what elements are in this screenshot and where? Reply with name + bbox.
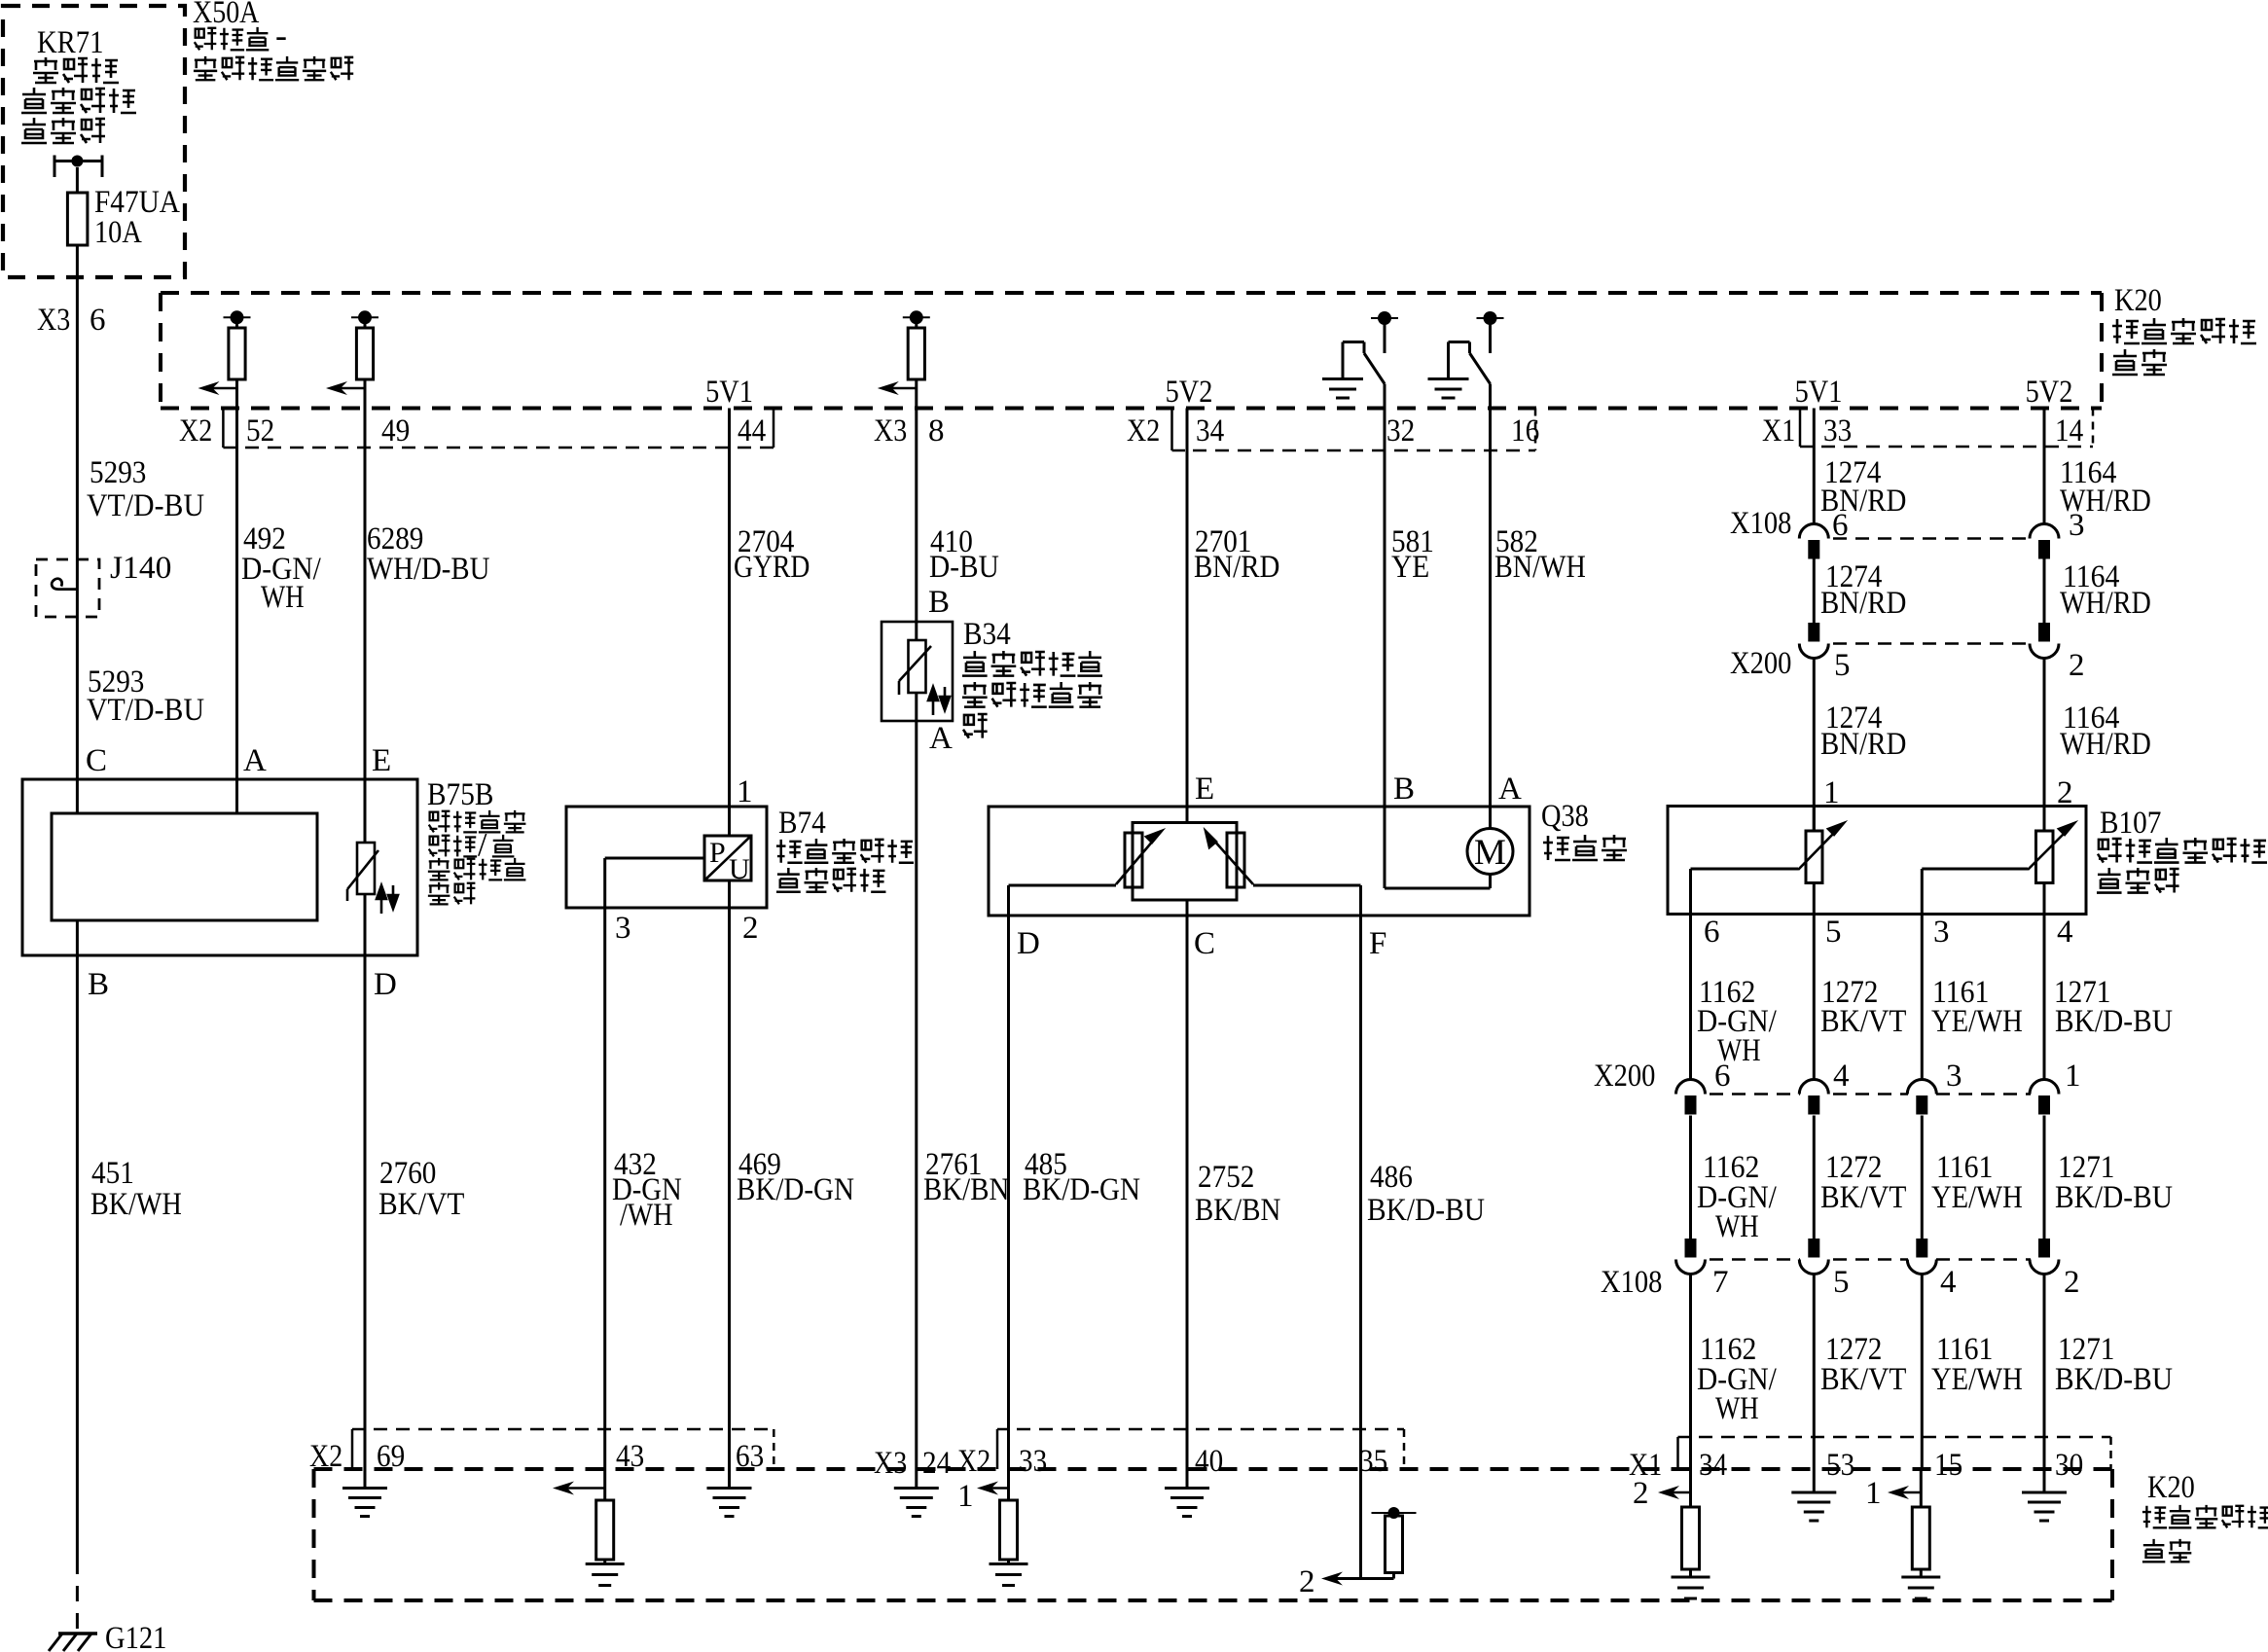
svg-text:2: 2 xyxy=(2069,648,2085,683)
svg-text:3: 3 xyxy=(1946,1059,1962,1094)
svg-text:X3: X3 xyxy=(37,303,70,338)
svg-text:K20: K20 xyxy=(2114,283,2162,318)
svg-text:/: / xyxy=(478,827,487,863)
svg-text:J140: J140 xyxy=(110,551,171,586)
svg-text:A: A xyxy=(243,743,267,778)
svg-text:63: 63 xyxy=(736,1439,764,1474)
svg-text:X200: X200 xyxy=(1730,646,1791,681)
svg-text:BK/D-BU: BK/D-BU xyxy=(1367,1193,1485,1228)
svg-text:24: 24 xyxy=(922,1446,951,1481)
svg-text:2: 2 xyxy=(1299,1564,1315,1599)
svg-text:X2: X2 xyxy=(179,413,212,449)
svg-text:52: 52 xyxy=(246,413,274,449)
svg-text:B75B: B75B xyxy=(427,777,493,812)
svg-text:53: 53 xyxy=(1826,1448,1854,1483)
svg-text:BK/D-GN: BK/D-GN xyxy=(737,1172,854,1207)
svg-text:44: 44 xyxy=(738,413,766,449)
svg-text:GYRD: GYRD xyxy=(734,550,810,585)
svg-text:YE/WH: YE/WH xyxy=(1931,1180,2023,1215)
svg-text:C: C xyxy=(86,743,107,778)
svg-text:WH/RD: WH/RD xyxy=(2060,727,2151,762)
svg-text:K20: K20 xyxy=(2147,1470,2195,1505)
svg-text:U: U xyxy=(729,853,750,885)
svg-text:33: 33 xyxy=(1019,1444,1047,1479)
svg-text:14: 14 xyxy=(2055,413,2083,449)
svg-text:7: 7 xyxy=(1712,1265,1729,1300)
svg-text:YE: YE xyxy=(1391,550,1429,585)
svg-text:B74: B74 xyxy=(778,806,826,841)
svg-text:M: M xyxy=(1474,833,1506,873)
svg-text:BK/VT: BK/VT xyxy=(1820,1362,1906,1397)
svg-text:X3: X3 xyxy=(874,1446,907,1481)
svg-text:49: 49 xyxy=(381,413,410,449)
svg-text:5V2: 5V2 xyxy=(2026,375,2073,410)
svg-text:BK/D-GN: BK/D-GN xyxy=(1023,1172,1140,1207)
svg-text:F: F xyxy=(1369,926,1386,961)
svg-text:16: 16 xyxy=(1511,413,1539,449)
svg-text:34: 34 xyxy=(1699,1448,1727,1483)
svg-text:B: B xyxy=(1393,772,1415,807)
svg-text:YE/WH: YE/WH xyxy=(1931,1362,2023,1397)
svg-text:BK/VT: BK/VT xyxy=(1820,1180,1906,1215)
svg-text:BK/WH: BK/WH xyxy=(90,1187,182,1222)
svg-text:KR71: KR71 xyxy=(37,25,103,60)
svg-text:1: 1 xyxy=(2065,1059,2081,1094)
svg-text:1: 1 xyxy=(737,774,753,809)
svg-text:G121: G121 xyxy=(105,1621,166,1652)
svg-text:VT/D-BU: VT/D-BU xyxy=(87,693,204,728)
svg-text:WH: WH xyxy=(261,580,305,615)
svg-text:3: 3 xyxy=(615,911,631,946)
svg-text:2752: 2752 xyxy=(1198,1160,1254,1195)
svg-text:4: 4 xyxy=(1833,1059,1850,1094)
svg-text:2: 2 xyxy=(742,911,759,946)
svg-text:X3: X3 xyxy=(874,413,907,449)
svg-text:BK/D-BU: BK/D-BU xyxy=(2055,1362,2173,1397)
svg-text:Q38: Q38 xyxy=(1541,799,1589,834)
svg-text:X2: X2 xyxy=(957,1444,990,1479)
svg-text:1: 1 xyxy=(1865,1476,1882,1511)
svg-text:WH/RD: WH/RD xyxy=(2060,586,2151,621)
svg-text:B: B xyxy=(88,967,109,1002)
svg-text:X50A: X50A xyxy=(193,0,260,30)
svg-text:5V2: 5V2 xyxy=(1166,375,1213,410)
svg-text:D-BU: D-BU xyxy=(929,550,999,585)
svg-text:BN/RD: BN/RD xyxy=(1820,586,1906,621)
svg-text:BK/D-BU: BK/D-BU xyxy=(2055,1180,2173,1215)
svg-text:43: 43 xyxy=(616,1439,644,1474)
svg-text:P: P xyxy=(709,837,726,869)
svg-text:BN/RD: BN/RD xyxy=(1194,550,1279,585)
svg-text:BK/D-BU: BK/D-BU xyxy=(2055,1004,2173,1039)
svg-text:69: 69 xyxy=(377,1439,405,1474)
svg-text:E: E xyxy=(372,743,391,778)
svg-text:X108: X108 xyxy=(1730,506,1791,541)
svg-text:D: D xyxy=(374,967,397,1002)
svg-text:X2: X2 xyxy=(1127,413,1160,449)
svg-text:X108: X108 xyxy=(1601,1265,1662,1300)
svg-text:BN/WH: BN/WH xyxy=(1494,550,1586,585)
svg-text:40: 40 xyxy=(1195,1444,1223,1479)
svg-text:X2: X2 xyxy=(309,1439,342,1474)
svg-text:WH: WH xyxy=(1715,1391,1759,1426)
svg-text:451: 451 xyxy=(91,1156,134,1191)
svg-text:B: B xyxy=(928,585,950,620)
svg-text:BK/VT: BK/VT xyxy=(1820,1004,1906,1039)
svg-text:5V1: 5V1 xyxy=(705,375,753,410)
svg-text:X200: X200 xyxy=(1594,1059,1655,1094)
svg-text:2760: 2760 xyxy=(379,1156,436,1191)
svg-text:30: 30 xyxy=(2055,1448,2083,1483)
svg-text:E: E xyxy=(1195,772,1214,807)
svg-text:WH: WH xyxy=(1715,1209,1759,1244)
svg-text:32: 32 xyxy=(1386,413,1415,449)
svg-text:5V1: 5V1 xyxy=(1795,375,1843,410)
svg-text:5293: 5293 xyxy=(90,455,146,490)
svg-text:B34: B34 xyxy=(963,617,1011,652)
svg-text:35: 35 xyxy=(1359,1444,1387,1479)
svg-text:486: 486 xyxy=(1370,1160,1413,1195)
svg-text:A: A xyxy=(1498,772,1522,807)
svg-text:-: - xyxy=(275,16,287,54)
svg-text:6: 6 xyxy=(1704,915,1720,950)
svg-text:BK/BN: BK/BN xyxy=(1195,1193,1281,1228)
svg-text:B107: B107 xyxy=(2100,806,2161,841)
svg-text:C: C xyxy=(1194,926,1215,961)
svg-text:VT/D-BU: VT/D-BU xyxy=(87,488,204,523)
svg-text:5: 5 xyxy=(1825,915,1842,950)
svg-text:A: A xyxy=(929,721,953,756)
svg-text:D: D xyxy=(1017,926,1040,961)
svg-text:WH/D-BU: WH/D-BU xyxy=(367,552,490,587)
svg-text:15: 15 xyxy=(1934,1448,1962,1483)
svg-text:/WH: /WH xyxy=(620,1198,673,1233)
svg-text:33: 33 xyxy=(1823,413,1852,449)
svg-text:8: 8 xyxy=(928,413,945,449)
svg-text:3: 3 xyxy=(2069,508,2085,543)
svg-text:4: 4 xyxy=(2057,915,2073,950)
svg-text:10A: 10A xyxy=(94,215,142,250)
svg-text:6: 6 xyxy=(90,303,106,338)
svg-text:6: 6 xyxy=(1714,1059,1731,1094)
svg-text:4: 4 xyxy=(1940,1265,1957,1300)
svg-text:BK/BN: BK/BN xyxy=(923,1172,1010,1207)
svg-text:2: 2 xyxy=(1633,1476,1649,1511)
svg-text:1: 1 xyxy=(957,1479,974,1514)
svg-text:BN/RD: BN/RD xyxy=(1820,727,1906,762)
svg-text:2: 2 xyxy=(2064,1265,2080,1300)
svg-text:X1: X1 xyxy=(1762,413,1795,449)
svg-text:YE/WH: YE/WH xyxy=(1931,1004,2023,1039)
svg-text:5: 5 xyxy=(1833,1265,1850,1300)
svg-text:5: 5 xyxy=(1834,648,1851,683)
svg-text:BK/VT: BK/VT xyxy=(378,1187,464,1222)
svg-text:34: 34 xyxy=(1196,413,1224,449)
svg-text:3: 3 xyxy=(1933,915,1950,950)
